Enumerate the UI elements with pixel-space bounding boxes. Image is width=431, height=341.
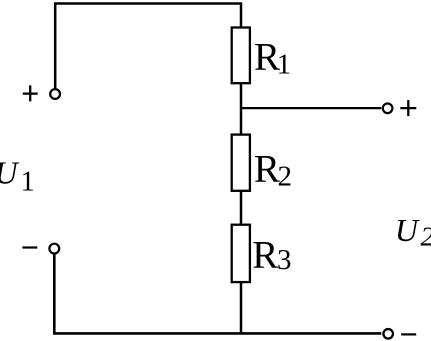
svg-text:1: 1 — [21, 167, 35, 198]
svg-text:R: R — [254, 147, 280, 190]
svg-text:U: U — [395, 212, 420, 248]
terminal circle: right - — [383, 329, 393, 339]
resistor R2 — [232, 135, 250, 191]
svg-text:1: 1 — [277, 48, 292, 80]
svg-text:R: R — [252, 234, 278, 277]
terminal circle: right + — [383, 104, 393, 114]
polarity mark: right - — [401, 333, 416, 335]
wire: R2 bottom to R3 top — [240, 190, 243, 225]
polarity mark: right + — [400, 100, 416, 116]
wire: middle tap from node between R1 and R2 to right + terminal — [241, 107, 381, 109]
terminal circle: left - — [49, 244, 59, 254]
wire: R1 bottom to R2 top — [240, 84, 243, 135]
polarity mark: left + — [23, 85, 38, 101]
resistor R3 — [232, 225, 250, 282]
polarity mark: left - — [22, 246, 37, 248]
svg-text:U: U — [0, 155, 20, 191]
svg-text:2: 2 — [278, 161, 293, 193]
wire: R3 bottom to bottom rail — [240, 282, 243, 334]
wire: bottom rail from left - terminal to right - terminal — [54, 254, 381, 333]
svg-text:2: 2 — [421, 222, 431, 252]
svg-text:3: 3 — [277, 244, 292, 276]
wire: top rail from left + terminal up and across to R1 — [55, 4, 241, 90]
resistor R1 — [232, 28, 250, 84]
terminal circle: left + — [50, 89, 60, 99]
